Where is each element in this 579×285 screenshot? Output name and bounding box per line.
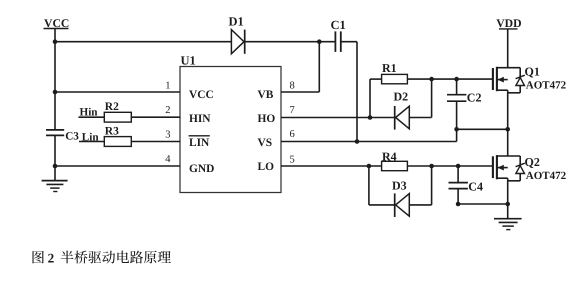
svg-text:C2: C2	[467, 90, 482, 104]
svg-text:U1: U1	[181, 53, 196, 67]
svg-text:Q1: Q1	[525, 65, 540, 79]
svg-text:GND: GND	[189, 163, 214, 175]
svg-text:VB: VB	[258, 89, 274, 101]
svg-text:HO: HO	[258, 113, 276, 125]
svg-text:3: 3	[165, 129, 170, 140]
svg-text:D1: D1	[229, 15, 244, 29]
svg-text:LIN: LIN	[189, 137, 210, 149]
svg-text:VS: VS	[258, 137, 273, 149]
svg-text:AOT472: AOT472	[526, 79, 567, 91]
svg-text:R3: R3	[105, 125, 119, 137]
svg-text:8: 8	[290, 80, 295, 91]
svg-text:2: 2	[165, 105, 170, 116]
svg-text:6: 6	[290, 129, 295, 140]
svg-text:7: 7	[290, 105, 295, 116]
svg-text:2: 2	[48, 250, 55, 265]
svg-text:D2: D2	[394, 90, 409, 104]
svg-text:R2: R2	[105, 101, 119, 113]
svg-text:C1: C1	[331, 18, 346, 32]
svg-text:VCC: VCC	[189, 89, 214, 101]
svg-text:R1: R1	[382, 61, 397, 75]
svg-text:AOT472: AOT472	[526, 170, 567, 182]
svg-text:C4: C4	[468, 179, 483, 193]
svg-text:HIN: HIN	[189, 113, 211, 125]
svg-text:1: 1	[165, 81, 170, 92]
svg-text:5: 5	[290, 154, 295, 165]
svg-text:LO: LO	[258, 161, 275, 173]
svg-text:4: 4	[165, 154, 171, 165]
svg-text:VDD: VDD	[496, 17, 521, 30]
svg-text:D3: D3	[392, 178, 407, 192]
svg-text:Q2: Q2	[525, 155, 540, 169]
svg-text:C3: C3	[65, 131, 79, 143]
